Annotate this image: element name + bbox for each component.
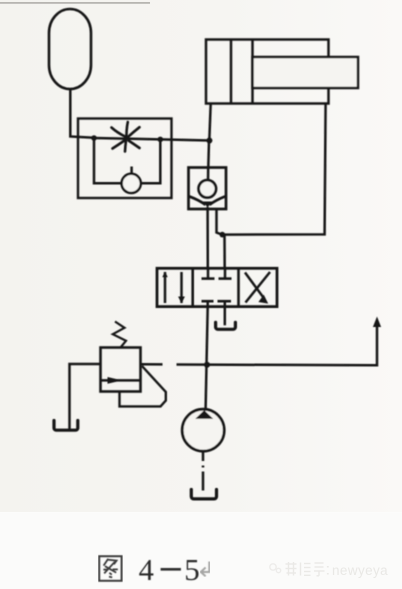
pump P1 <box>182 409 224 451</box>
svg-text:newyeya: newyeya <box>332 563 388 578</box>
wire dashed segment relief to line <box>141 363 163 366</box>
wire cylinder left port down <box>209 104 210 141</box>
accumulator <box>49 9 91 89</box>
caption digits 4-5 <box>139 552 200 587</box>
relief valve pilot line <box>120 366 166 406</box>
node junction right in throttle box <box>158 137 164 143</box>
relief valve box <box>101 348 141 392</box>
one-way throttle valve enclosure <box>78 119 172 199</box>
wire check valve square to valve port A <box>206 207 209 269</box>
directional valve right position crossed arrows <box>245 272 270 304</box>
check valve C1 (bypass) <box>122 167 141 193</box>
wire check valve square right line down with jog <box>217 210 225 269</box>
throttle valve (adjustable) <box>112 122 140 152</box>
cylinder piston <box>231 40 253 104</box>
cylinder rod <box>253 57 359 88</box>
node junction P line with horizontal <box>204 362 210 368</box>
node junction at jog <box>220 232 226 238</box>
wire accumulator to throttle box <box>70 89 94 138</box>
svg-text:5: 5 <box>184 552 200 587</box>
caption character tu (hand drawn) <box>99 556 121 581</box>
caption return mark <box>201 562 210 577</box>
tank T3 pump suction <box>191 490 216 499</box>
wire cylinder right port down and across <box>222 104 326 235</box>
node junction at check valve inlet <box>206 138 212 144</box>
wire main line through throttle box <box>94 138 210 141</box>
relief valve spring <box>113 322 126 348</box>
directional valve left position arrows <box>162 272 185 304</box>
wire junction to check valve square <box>207 141 210 168</box>
hydraulic cylinder barrel <box>206 40 329 104</box>
wire relief valve to tank <box>70 364 101 430</box>
directional valve outer box <box>157 268 277 306</box>
wire P line valve to pump <box>206 307 208 409</box>
tank T2 relief drain <box>54 421 78 431</box>
wire pressure line horizontal right and riser with arrow <box>177 317 382 366</box>
wire bypass branch <box>94 138 160 183</box>
svg-text:4: 4 <box>139 553 154 587</box>
watermark icon <box>270 564 281 573</box>
node junction left in throttle box <box>91 135 97 141</box>
check valve C2 (in square) <box>189 167 227 209</box>
directional valve center position blocked ports <box>202 268 232 306</box>
wire pump suction <box>202 451 205 490</box>
tank T1 below directional valve <box>216 307 236 330</box>
watermark weixinhao characters (faint) <box>286 562 328 576</box>
